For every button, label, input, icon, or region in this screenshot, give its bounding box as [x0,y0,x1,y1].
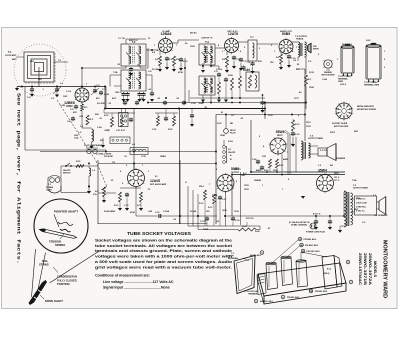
capacitor C-8 [151,92,153,94]
svg-text:35Z5: 35Z5 [334,173,340,175]
screen feed vertical [240,172,242,225]
svg-text:SPEAKER: SPEAKER [336,157,346,160]
tone capacitor C-18 [232,217,234,219]
svg-text:C-17A: C-17A [200,220,207,223]
pointer shaft rod [40,229,77,239]
wire osc feed [105,87,107,110]
resistor R-7 [305,75,308,86]
svg-text:PB: PB [309,291,312,293]
svg-text:1MEG: 1MEG [160,156,166,158]
svg-text:PRI: PRI [356,198,360,200]
plate wire 12BA6 [165,36,167,39]
svg-text:C-2 LOOP ANT.: C-2 LOOP ANT. [245,290,260,293]
svg-text:22K: 22K [95,114,99,116]
dial string to pictorial [45,254,100,282]
IF can 3 on chassis [296,261,308,288]
tone control cluster [206,217,208,219]
volume coupling capacitor C-12 [240,58,242,60]
wire to AC rail [231,175,233,217]
svg-text:DIAL: DIAL [42,259,48,263]
svg-text:I.F. AMP: I.F. AMP [162,30,171,33]
B plus wire lower [148,102,306,104]
svg-text:POWER CORD PLUG: POWER CORD PLUG [306,232,326,234]
svg-text:AVC: AVC [112,97,117,100]
decoupling capacitor C-20A [191,109,193,114]
callout row 1 [298,237,302,241]
svg-text:22K: 22K [199,103,203,105]
svg-text:SWITCH: SWITCH [63,172,71,174]
filter capacitors C-24 [257,160,259,162]
svg-text:MODELS: MODELS [373,261,377,278]
svg-text:C-6A: C-6A [322,78,327,81]
cathode resistor R-13 [213,194,216,204]
svg-text:25WG-1570A&C: 25WG-1570A&C [358,253,362,285]
svg-text:R-14A: R-14A [190,210,197,213]
svg-text:121 V.: 121 V. [334,177,340,179]
voice coil wires [309,145,319,147]
svg-text:T-4: T-4 [327,268,331,271]
switch S-2 [66,163,70,166]
loop antenna windings [24,52,54,82]
svg-text:KEY: KEY [354,131,359,133]
svg-text:T-3: T-3 [205,40,209,44]
ground R-3 [159,66,161,69]
svg-text:4B (S) ADJ.: 4B (S) ADJ. [250,254,262,257]
B plus feed wire [297,57,299,61]
svg-text:(C-19A,B 0.047 MF. IN: (C-19A,B 0.047 MF. IN [289,221,310,224]
svg-text:a 300 volt scale used for plat: a 300 volt scale used for plate and scre… [95,260,233,264]
filter choke L-3 [89,168,91,176]
tube socket bottom view [336,103,352,119]
drive shaft [29,280,48,305]
svg-text:CONV.: CONV. [66,106,73,108]
svg-text:PM BEL ADJ.: PM BEL ADJ. [287,296,300,299]
svg-text:CONDENSER IN: CONDENSER IN [57,275,77,279]
neon pilot lamp [224,129,229,134]
svg-text:V.C.: V.C. [308,61,312,63]
svg-text:(50L6): (50L6) [324,273,330,275]
svg-text:470K: 470K [178,71,183,74]
svg-text:LUG 2: LUG 2 [340,84,347,86]
junction dot [88,176,90,186]
rectifier socket 35W4 [270,138,286,154]
svg-text:tube socket terminals. All vol: tube socket terminals. All voltages are … [95,244,233,248]
svg-text:117 V.: 117 V. [334,180,340,182]
callout leader lines [271,240,298,264]
wire bottom left bus [24,87,26,151]
wire T-3 to 12AT6 [215,47,225,49]
cathode resistor R-6 [280,52,282,55]
svg-text:OSC: OSC [63,96,68,98]
filter resistors [269,159,272,168]
capacitor C-5 [75,105,77,107]
svg-text:Signal Input .................: Signal Input ...........................… [103,286,170,290]
svg-text:MOUNTING SCREW: MOUNTING SCREW [357,109,376,111]
svg-text:40MF: 40MF [256,169,262,172]
padder capacitors under osc coil [123,92,125,94]
svg-text:121V: 121V [306,122,311,124]
tube V3 12AT6 detector AVC [225,39,239,53]
grid resistor R-1 [81,102,83,104]
svg-text:STRING: STRING [39,263,49,267]
feed wire right [179,109,181,225]
capacitor C-11 [233,56,235,58]
IF can terminal view 1 [341,47,354,73]
IF can 2 on chassis [281,257,293,286]
tube V1 12BE6 converter [75,88,89,102]
svg-text:117V: 117V [236,169,241,171]
svg-text:PRI: PRI [38,79,42,81]
svg-text:120V: 120V [222,210,227,212]
padder capacitor donut [324,60,332,68]
vertical feeder x185 [184,58,186,103]
svg-text:V.C.: V.C. [362,222,366,224]
choke box [130,148,148,155]
dial cord drawing circle [34,199,88,253]
svg-text:R-15 33: R-15 33 [246,218,254,220]
svg-text:B-: B- [221,112,224,114]
svg-text:3.2 V.C.: 3.2 V.C. [320,150,328,152]
svg-text:DRIVE SHAFT: DRIVE SHAFT [45,299,63,303]
svg-text:SPKR: SPKR [313,49,319,51]
tuning condenser C-2 on chassis [257,274,266,295]
svg-text:METAL BRACKET: METAL BRACKET [357,105,375,108]
svg-text:VIEW: VIEW [338,81,343,83]
svg-text:PILOT: PILOT [230,133,236,135]
output transformer T-4 on chassis [322,256,337,290]
trimmer capacitor C-1 [56,88,58,90]
svg-text:150K: 150K [309,87,314,89]
svg-text:150K: 150K [220,135,225,137]
vertical feeder x265 [264,103,266,119]
svg-text:47K: 47K [73,111,77,114]
bottom rail [188,225,260,227]
dial lamps [87,149,91,153]
wire T-5 secondary [305,56,307,58]
AVC bus wire [190,97,265,99]
svg-text:POSITION.: POSITION. [57,282,70,286]
ground osc coil [91,142,93,146]
svg-text:470K: 470K [130,211,135,214]
terminal strip [110,137,130,144]
wire rail to transformer [343,192,345,216]
svg-text:4B: 4B [300,244,303,247]
callout row 2 [300,243,304,247]
svg-text:LUG: LUG [366,40,371,42]
line bypass capacitors [315,216,317,219]
svg-text:SOCKET GUIDE: SOCKET GUIDE [332,123,348,125]
capacitor C-13 [252,62,254,64]
resistor column [239,76,242,88]
IF transformer T-3 [199,44,215,65]
tube V2 12BA6 IF amplifier [159,39,173,53]
screen capacitor C-10 [180,58,182,60]
AC rail wires [251,171,345,173]
oscillator transformer box [121,70,146,91]
voice coil wires lower [351,198,355,200]
svg-text:SPRING: SPRING [55,243,65,247]
switch S-1 wafer [223,146,226,149]
electrolytic can symbol [119,113,129,127]
speaker lower right [378,201,380,210]
dropper cluster [292,120,295,131]
cathode resistor R-3 [159,51,161,56]
svg-text:455 KC: 455 KC [190,32,197,35]
capacitor C-6 [72,117,74,119]
junction dots [56,86,58,88]
B minus bus wire [105,108,265,110]
bypass capacitor C-9 [166,57,168,59]
svg-text:Socket voltages are shown on t: Socket voltages are shown on the schemat… [95,238,232,242]
power cord plug [310,223,316,229]
svg-text:SEC: SEC [30,61,35,63]
svg-text:.05MF: .05MF [104,130,111,132]
audio grid components [119,192,122,202]
bypass capacitor C-14 [288,55,290,57]
rectifier tube 35W4 lower [317,175,334,192]
ground choke [88,188,90,191]
svg-text:OUTPUT TRANS.: OUTPUT TRANS. [308,137,324,140]
IF transformer T-2 [121,44,146,66]
ground at loop [16,87,18,89]
svg-text:105V: 105V [244,189,249,191]
svg-text:R-2 22K: R-2 22K [97,103,105,105]
wire T-2 to 12BA6 [146,49,158,51]
svg-text:C-21 R-17: C-21 R-17 [116,130,126,132]
svg-text:R-5A: R-5A [228,74,233,77]
tube V4 50B5 output [279,40,293,54]
svg-text:TRIMMER: TRIMMER [248,294,258,296]
svg-text:LOOP ANT.: LOOP ANT. [5,54,17,57]
power transformer T-5 second [344,191,346,227]
phono compensation box [246,72,259,91]
tube V6 50B5 output lower [217,175,234,192]
svg-text:MONTGOMERY WARD: MONTGOMERY WARD [382,240,388,298]
audio coupling box T-4 [248,40,257,61]
IF can 1 on chassis [266,263,278,290]
ground node [102,138,104,145]
coupling capacitor C-16 [158,215,160,217]
svg-text:ANT.: ANT. [12,58,17,61]
svg-text:grid voltages were read with a: grid voltages were read with a vacuum tu… [95,266,232,270]
svg-text:R-3 68: R-3 68 [152,69,159,71]
svg-text:35L6: 35L6 [199,186,205,188]
speaker terminal box [355,196,377,215]
svg-text:CORD: CORD [46,189,52,191]
svg-text:100V: 100V [190,46,195,48]
svg-text:2 BLK COM.: 2 BLK COM. [356,203,367,205]
grid resistor R-12 [204,190,207,200]
heater return wire [98,163,216,165]
svg-text:12BE6: 12BE6 [64,101,75,105]
dropper column C-24 [262,95,264,100]
ground arrow mid [301,196,305,199]
svg-text:R-9A 1MEG: R-9A 1MEG [104,210,116,213]
antenna bus wire [17,86,106,88]
svg-text:SEC: SEC [354,209,359,211]
svg-text:L-2A: L-2A [97,126,102,129]
svg-text:C-11A: C-11A [216,68,222,71]
svg-text:Conditions of measurement are:: Conditions of measurement are: [95,274,150,278]
callout bottom right [309,289,313,293]
diode load resistor R-5 [226,52,228,56]
svg-text:35W4: 35W4 [276,130,285,134]
B minus long wire [40,151,216,153]
svg-text:PIN 1: PIN 1 [330,132,336,134]
detector diode components [218,73,220,75]
svg-text:R13A: R13A [212,194,218,197]
svg-text:10MEG: 10MEG [243,70,250,72]
capacitor C-3 [100,91,102,93]
svg-text:110V: 110V [306,126,311,128]
svg-text:PM BEC ADJ.: PM BEC ADJ. [305,244,319,247]
IF transformer T-3 lower winding [199,76,215,95]
svg-text:35W4: 35W4 [318,169,327,173]
svg-text:INPUT I.F.: INPUT I.F. [129,40,139,42]
svg-text:S-1A: S-1A [228,140,233,143]
tuning gang dashed link [57,100,96,161]
wires T-3 lower [202,95,204,99]
svg-text:DET. AUDIO AMP.: DET. AUDIO AMP. [150,183,167,186]
tube V5 12AV6 audio amplifier [128,170,145,187]
svg-text:C-1A: C-1A [66,90,71,93]
wire T-3 bottom [202,63,204,69]
callout circles scattered [346,260,350,264]
svg-text:A 117 V.: A 117 V. [313,213,321,216]
svg-text:TERMINAL VIEW: TERMINAL VIEW [364,84,379,87]
svg-text:COIL: COIL [74,138,80,140]
bypass capacitor C-17 [219,196,221,198]
capacitor C-7 [130,67,132,69]
tension spring [60,229,71,232]
svg-text:47K: 47K [258,60,262,63]
wire 50B5 plate to T-5 [292,41,298,43]
svg-text:ON-OFF: ON-OFF [228,152,236,154]
svg-text:40MF: 40MF [283,158,289,161]
svg-text:12AV6: 12AV6 [150,179,160,183]
svg-text:POINTER SHAFT: POINTER SHAFT [54,210,78,214]
trimmer capacitor C-2 osc [94,89,96,91]
svg-text:TENSION: TENSION [49,240,61,244]
loop antenna T-1 dashed circle [14,44,66,96]
svg-text:110V: 110V [234,211,239,213]
svg-text:OSC 2: OSC 2 [115,92,122,94]
wire jack to switch [61,165,98,167]
svg-text:AM OSC ADJ.: AM OSC ADJ. [260,300,273,303]
svg-text:C-7 .05: C-7 .05 [118,38,126,40]
svg-text:T-2A: T-2A [113,71,118,74]
svg-text:R-7A: R-7A [309,71,314,74]
chassis base [258,263,346,296]
svg-text:R-8 470K: R-8 470K [104,155,113,158]
volume control R-9 [103,187,106,197]
dial string lines [32,249,36,297]
resistor R-14 horizontal [198,229,238,231]
svg-text:25WG-1571B: 25WG-1571B [363,253,367,285]
svg-text:C-16A: C-16A [163,210,170,213]
svg-text:T-5A: T-5A [352,179,357,182]
audio feed vertical [133,109,135,171]
twisted pair to speaker [287,134,289,175]
svg-text:VOL.: VOL. [93,194,98,196]
audio section frame [97,160,99,224]
svg-text:TUBE SOCKET VOLTAGES: TUBE SOCKET VOLTAGES [127,231,191,236]
wire lower return [61,192,89,194]
speaker top [307,46,309,51]
wire plate to T-2 [81,68,83,88]
fuse resistor R-22 [76,165,84,168]
svg-text:AUDIO OUT: AUDIO OUT [280,30,292,33]
resistor R-4 [173,56,176,66]
svg-text:FULLY CLOSED: FULLY CLOSED [57,278,77,282]
component cluster detector filter [157,116,160,126]
svg-text:25WG-1572A: 25WG-1572A [368,253,372,285]
svg-text:OSC. COIL: OSC. COIL [342,44,353,46]
wire audio top [133,164,135,170]
svg-text:PM OSC ADJ.: PM OSC ADJ. [307,250,321,253]
svg-text:SOME CHASSIS): SOME CHASSIS) [291,224,307,227]
svg-text:PM BEL ADJ.: PM BEL ADJ. [315,290,328,293]
callout row 3 [301,249,305,253]
svg-text:DET. A.V.C.: DET. A.V.C. [228,30,239,33]
svg-text:150V: 150V [273,170,278,172]
svg-text:P.M. SPEAKER: P.M. SPEAKER [374,214,388,217]
svg-text:OUTPUT I.F.: OUTPUT I.F. [201,38,213,40]
oscillator coil L-2 [81,111,83,128]
long B wire [232,215,344,217]
svg-text:voltages were taken with a 100: voltages were taken with a 1000 ohm-per-… [95,255,232,259]
svg-text:120V: 120V [244,185,249,187]
callout bottom mid [281,295,285,299]
svg-text:C-3A: C-3A [104,93,109,96]
wire to output tube [257,43,278,45]
svg-text:PM BEL ADJ.: PM BEL ADJ. [304,238,317,241]
svg-text:terminals and chassis ground.: terminals and chassis ground. Plate, scr… [95,249,232,253]
wire 12AT6 plate [238,41,248,43]
svg-text:OUTPUT TRANS.: OUTPUT TRANS. [353,187,369,190]
component cluster R-16 network [111,117,114,127]
resistor R-2 [86,115,89,125]
svg-text:See next page, over, for Align: See next page, over, for Alignment facts… [16,93,22,264]
svg-text:BOTTOM VIEW: BOTTOM VIEW [322,75,335,77]
IF can terminal view 2 [366,46,381,79]
svg-text:GANG: GANG [96,144,103,147]
section frame wire [216,114,305,116]
wires osc box [110,74,121,76]
svg-text:RECT.: RECT. [277,135,283,137]
chassis pictorial loop antenna panel [234,256,255,294]
speaker alt model [318,148,327,156]
svg-text:Line voltage .................: Line voltage ...........................… [103,280,174,284]
svg-text:C-2B: C-2B [60,105,65,107]
wires lower output [187,186,189,226]
power interlock jack [48,176,61,194]
svg-text:BOTTOM VIEW: BOTTOM VIEW [334,126,348,128]
bus capacitors [124,101,126,103]
svg-text:TRANS.: TRANS. [296,37,304,40]
ground bottom rail [246,222,248,226]
capacitor C-4 [31,88,33,90]
svg-text:ANTENNA: ANTENNA [228,257,238,260]
svg-text:35W4A: 35W4A [254,179,261,182]
svg-text:117V: 117V [294,98,299,100]
